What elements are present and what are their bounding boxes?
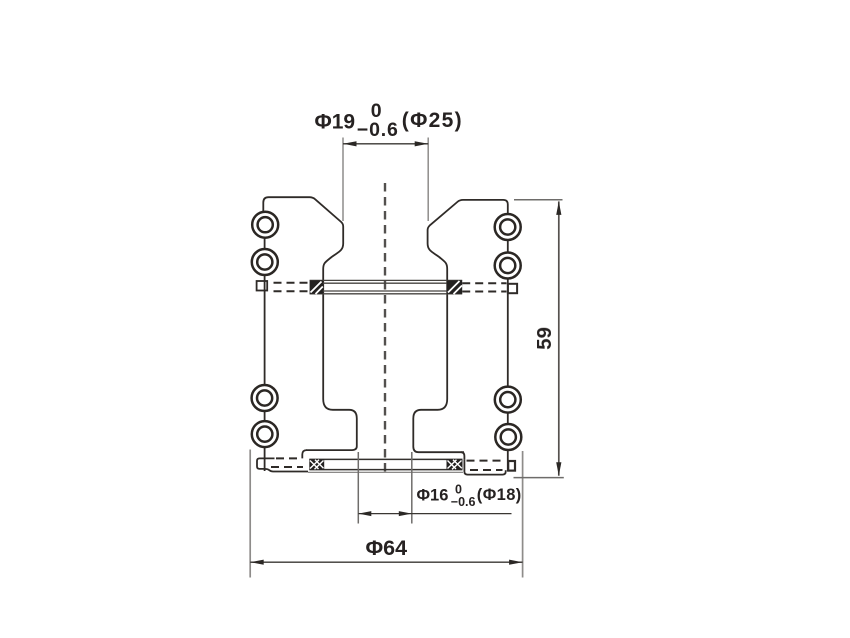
dimension phi16 arrow right: [399, 511, 412, 516]
dimension phi19 line: [343, 143, 428, 145]
bottom clamp hatch right: [447, 459, 463, 469]
middle plate hidden dashes right: [462, 283, 506, 291]
dimension phi16 extension line right: [411, 452, 413, 524]
top-right winding wall lower curve: [413, 399, 464, 452]
terminal eyelet top-right 2: [495, 253, 521, 279]
middle clamp hatch right: [447, 280, 462, 294]
bottom-right wing step: [461, 452, 465, 459]
middle plate outer lines: [310, 280, 463, 293]
bottom-left wing step: [302, 450, 306, 458]
svg-text:59: 59: [533, 327, 556, 350]
terminal eyelet bottom-left 2: [252, 421, 278, 447]
svg-text:(Φ25): (Φ25): [402, 109, 463, 132]
svg-text:Φ64: Φ64: [366, 536, 408, 560]
dimension 59 extension line bottom: [514, 477, 564, 479]
bottom plate outer lines: [309, 459, 462, 469]
dimension phi64 line: [250, 561, 522, 563]
bottom plate bottom thin line: [308, 471, 463, 473]
dimension 59 line: [558, 201, 560, 475]
bottom-left wing tab and bottom edge: [257, 458, 308, 471]
dimension 59 arrow bottom: [556, 462, 561, 476]
dimension phi64 arrow right: [509, 560, 522, 565]
bottom clamp hatch left: [309, 459, 324, 469]
dimension phi16 arrow left: [358, 511, 371, 516]
bottom plate end tab right: [508, 461, 515, 471]
dimension phi16 line: [358, 513, 511, 515]
terminal eyelet top-left 1: [252, 212, 278, 238]
svg-text:−0.6: −0.6: [451, 495, 476, 509]
dimension phi64 extension line right: [522, 451, 524, 578]
dimension 59 extension line top: [514, 199, 563, 201]
terminal eyelet bottom-right 2: [495, 424, 521, 450]
top-left flange outline: [263, 197, 343, 399]
bottom-left wing hidden dash top: [276, 457, 302, 459]
dimension phi19 arrow right: [415, 141, 429, 146]
dimension phi19 arrow left: [343, 141, 357, 146]
bottom-left wing hidden dash bottom: [271, 466, 303, 468]
terminal eyelet top-right 1: [495, 214, 521, 240]
centerline: [384, 183, 386, 477]
terminal eyelet bottom-right 1: [495, 387, 521, 413]
svg-text:−0.6: −0.6: [357, 119, 399, 141]
middle plate end tab left: [257, 281, 268, 291]
dimension 59 arrow top: [556, 201, 561, 215]
terminal eyelet top-left 2: [252, 249, 278, 275]
terminal pin column left segments: [264, 238, 266, 471]
middle clamp hatch left: [310, 280, 323, 294]
bottom-right wing tab and bottom edge: [464, 460, 505, 475]
dimension phi64 arrow left: [250, 560, 264, 565]
bottom-right wing hidden dash top: [467, 460, 504, 462]
dimension phi19 extension line right: [427, 138, 429, 222]
top-left winding wall lower curve: [306, 399, 357, 450]
terminal eyelet bottom-left 1: [252, 385, 278, 411]
dimension phi64 extension line left: [249, 450, 251, 578]
svg-text:Φ19: Φ19: [315, 110, 356, 133]
bottom-right wing hidden dash bottom: [470, 469, 503, 471]
middle plate end tab right: [508, 284, 517, 293]
top-right flange outline: [428, 200, 508, 399]
middle plate hidden dashes left: [274, 283, 310, 291]
dimension phi16 extension line left: [357, 452, 359, 524]
svg-text:(Φ18): (Φ18): [477, 486, 522, 504]
middle plate inner lines: [323, 283, 447, 291]
svg-text:Φ16: Φ16: [417, 487, 449, 505]
terminal pin column right segments: [507, 240, 509, 471]
dimension phi19 extension line left: [342, 138, 344, 222]
